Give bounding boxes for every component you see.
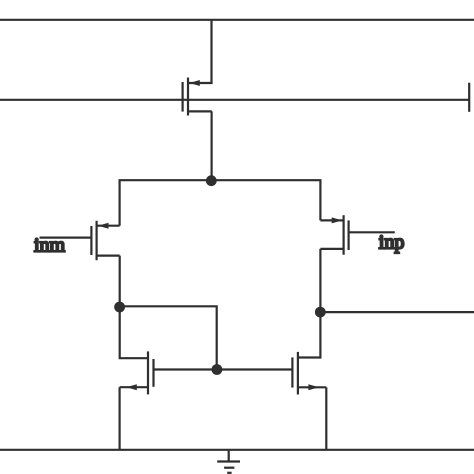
source wire with arrow (points away = NMOS) xyxy=(120,386,148,388)
ground symbol xyxy=(217,450,240,473)
gate bar xyxy=(348,220,350,250)
node C mirror gate dot xyxy=(212,364,223,375)
gate bar xyxy=(291,357,293,387)
wire M1 drain down through node B to M3 drain xyxy=(120,256,148,359)
gate wire xyxy=(349,231,395,233)
wire output to right edge xyxy=(320,311,474,313)
drain wire xyxy=(97,255,120,257)
wire mirror gate rail xyxy=(154,368,293,370)
transistor M2 input PMOS inp xyxy=(320,215,394,255)
svg-text:inm: inm xyxy=(34,235,66,257)
source wire with arrow xyxy=(97,225,120,227)
drain wire xyxy=(320,248,343,250)
channel bar xyxy=(95,221,97,260)
gate bar xyxy=(182,82,184,112)
source wire with arrow xyxy=(320,219,343,221)
wire node B to mirror gates xyxy=(120,306,217,369)
node bias terminal tick xyxy=(468,83,470,112)
gate bar xyxy=(90,226,92,255)
gate bar xyxy=(152,359,154,387)
transistor M3 mirror NMOS left xyxy=(120,351,154,394)
node B dot xyxy=(114,302,125,313)
wire M2 drain down through node D to M4 drain xyxy=(298,249,321,358)
drain wire xyxy=(188,110,212,112)
transistor M5 (top PMOS current source) xyxy=(183,78,212,116)
node A tail node dot xyxy=(206,175,217,186)
channel bar xyxy=(343,215,345,255)
wire bias line pbias xyxy=(0,99,469,101)
wire M5 source to VDD rail xyxy=(189,20,212,83)
gate wire xyxy=(40,237,92,239)
channel bar xyxy=(147,351,149,394)
wire M5 drain down to tail node xyxy=(211,111,213,181)
svg-text:inp: inp xyxy=(379,232,405,254)
wire VDD top rail xyxy=(0,19,474,21)
source arrow (points into channel = PMOS) xyxy=(189,80,200,86)
channel bar xyxy=(297,352,299,395)
wire ground rail xyxy=(0,449,474,451)
wire tail rail xyxy=(120,180,321,226)
wire M3 source to ground rail xyxy=(118,387,120,450)
channel bar xyxy=(187,78,189,116)
node D dot xyxy=(315,307,326,318)
wire M4 source to ground rail xyxy=(325,387,327,450)
source wire with arrow xyxy=(298,386,326,388)
transistor M4 mirror NMOS right xyxy=(292,352,326,395)
transistor M1 input PMOS inm xyxy=(40,221,120,260)
